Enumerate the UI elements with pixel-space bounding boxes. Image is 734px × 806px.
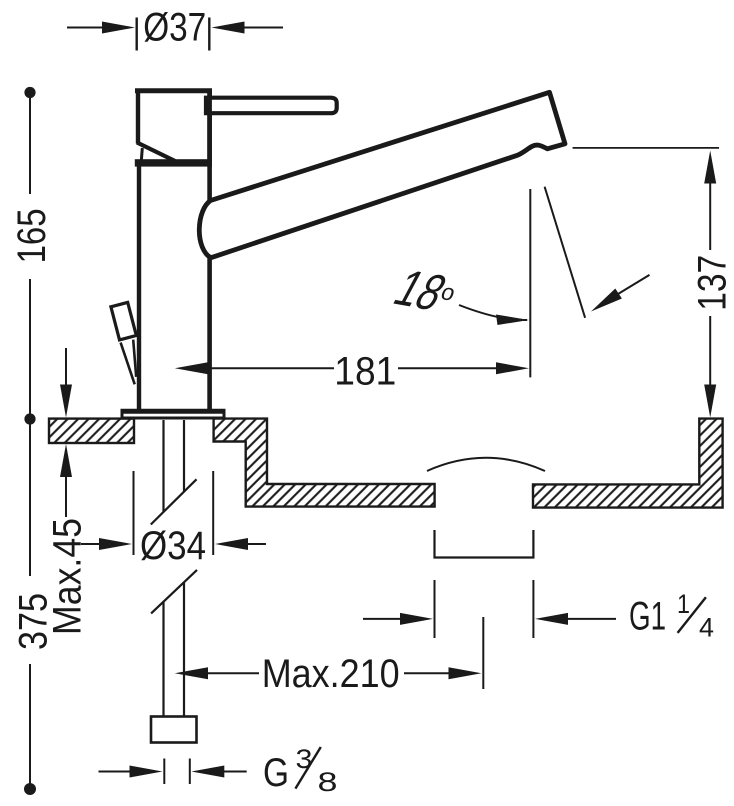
basin dome over drain: [427, 458, 545, 471]
18 degree slanted line: [545, 187, 586, 318]
svg-text:165: 165: [10, 208, 54, 263]
basin bottom right + right wall: [533, 419, 723, 508]
dot bottom: [24, 783, 36, 795]
dimension 137: [704, 151, 716, 418]
hose lines: [162, 602, 164, 717]
dimension G1 1/4: [363, 580, 616, 638]
cap tilted bottom: [137, 143, 175, 162]
svg-text:4: 4: [699, 613, 714, 643]
countertop right of faucet + basin wall: [214, 419, 435, 507]
svg-text:Ø37: Ø37: [143, 6, 206, 50]
arrow to slanted line: [591, 275, 650, 312]
vertical reference line (spout axis projection): [529, 189, 531, 377]
leader from 18 to vertical line: [459, 305, 527, 320]
dimension 165 vertical left: [29, 93, 31, 419]
dimension G 3/8: [99, 759, 247, 785]
dimension Ø34: [81, 471, 266, 555]
hose end fitting block: [151, 717, 197, 743]
spout tip extension line: [573, 147, 719, 149]
dimension Max.210: [175, 617, 484, 689]
dimension Max.45 counter thickness: [60, 348, 72, 517]
faucet body: [139, 166, 210, 410]
thread break slash 1: [151, 479, 197, 524]
svg-text:1: 1: [677, 589, 690, 619]
svg-text:Max.210: Max.210: [262, 652, 400, 696]
lever handle: [206, 98, 337, 114]
svg-text:3: 3: [296, 744, 313, 774]
svg-text:181: 181: [334, 350, 396, 394]
drain tailpiece U: [435, 530, 534, 558]
faucet spout: [199, 92, 565, 257]
dimension Ø37 top: [67, 18, 283, 51]
dimension 181: [175, 362, 529, 374]
svg-text:G: G: [263, 751, 289, 795]
threaded shank lines: [151, 420, 197, 716]
thread break slash 2: [151, 570, 197, 614]
faucet pop-up rod knob: [111, 302, 136, 384]
pop-up rod stem: [121, 343, 135, 385]
svg-text:Max.45: Max.45: [46, 518, 90, 635]
svg-text:8: 8: [318, 767, 338, 797]
svg-text:G1: G1: [629, 594, 666, 638]
joint band: [135, 159, 212, 166]
faucet cartridge cap: [135, 89, 212, 201]
dot mid (counter level): [24, 413, 35, 424]
base flange: [122, 411, 224, 418]
svg-text:Ø34: Ø34: [140, 524, 206, 568]
dot top: [24, 87, 35, 98]
dimension 375 vertical left: [29, 419, 31, 789]
svg-text:137: 137: [691, 255, 734, 311]
countertop left section: [49, 419, 134, 443]
